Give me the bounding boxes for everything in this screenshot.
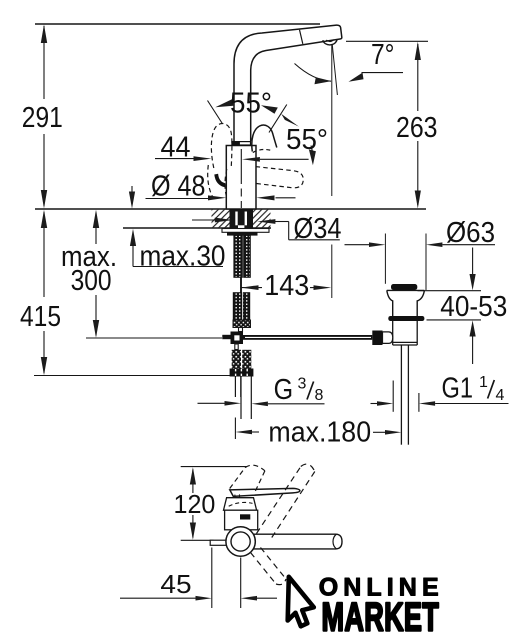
logo cursor — [288, 577, 314, 627]
sideview left stub — [210, 540, 226, 545]
aerator bump — [323, 39, 337, 45]
svg-text:55°: 55° — [230, 87, 272, 119]
callout max30 — [129, 186, 223, 267]
svg-text:max.30: max.30 — [140, 241, 226, 273]
svg-text:8: 8 — [315, 387, 324, 404]
hose fitting right — [242, 350, 251, 369]
svg-text:Ø 48: Ø 48 — [151, 171, 206, 203]
countertop hatch left — [212, 210, 230, 228]
svg-text:G: G — [274, 374, 294, 406]
pop-up rod cross fitting — [231, 332, 244, 345]
sideview spout bar — [250, 534, 342, 549]
countertop top line — [35, 208, 426, 210]
pop-up rod upper — [239, 328, 243, 332]
sideview body notch — [240, 514, 250, 519]
horizontal rod left stub — [222, 335, 230, 339]
sideview swivel inner circle — [231, 532, 250, 551]
svg-text:Ø63: Ø63 — [446, 217, 495, 249]
braided hose upper right — [244, 236, 251, 278]
body centerline dashed — [240, 149, 242, 208]
sideview handle blade — [230, 488, 300, 496]
drain o-ring seal — [388, 316, 424, 321]
sideview body — [225, 510, 258, 530]
extension line at pop-up rod level — [86, 337, 222, 339]
sideview cap — [224, 498, 257, 511]
spout tip divider line — [300, 30, 303, 44]
dim max300 — [93, 210, 99, 338]
dim G1 1/4 — [371, 381, 509, 412]
dim diameter 63 — [345, 242, 496, 247]
drain plug black cap — [391, 284, 417, 290]
svg-text:300: 300 — [71, 265, 112, 297]
hose end checker block — [233, 320, 251, 328]
dim 291 — [41, 25, 47, 209]
svg-text:40-53: 40-53 — [440, 291, 507, 323]
countertop hatch right — [253, 210, 271, 228]
vertical reference line from spout outlet — [331, 45, 333, 196]
sideview ext line bottom — [181, 539, 214, 541]
dim 143 — [241, 285, 331, 290]
dim 120 — [190, 467, 196, 540]
7 degree callout — [295, 64, 404, 85]
drain rod port housing — [383, 332, 393, 344]
svg-text:120: 120 — [174, 491, 216, 519]
logo MARKET text — [322, 595, 440, 640]
threaded shank in countertop — [230, 209, 254, 229]
handle dashed position down-right — [255, 167, 304, 188]
svg-text:143: 143 — [264, 270, 309, 302]
svg-text:MARKET: MARKET — [322, 595, 440, 640]
drain tailpipe — [400, 345, 402, 445]
dim 415 — [41, 210, 47, 376]
7 degree tilted reference line — [332, 45, 337, 95]
faucet body — [226, 146, 256, 210]
drain flange — [387, 289, 425, 291]
drain body — [393, 321, 418, 345]
faucet spout outline — [234, 25, 342, 141]
svg-text:263: 263 — [396, 112, 438, 144]
sideview dashed spout lowered — [251, 548, 287, 585]
sideview spout bar end cap — [333, 534, 336, 548]
dim G3/8 — [198, 401, 325, 406]
dim 44 — [155, 156, 309, 162]
braided hose lower left — [233, 293, 241, 320]
braided hose upper left — [234, 236, 243, 278]
pop-up rod between hoses — [240, 277, 242, 292]
sideview swivel outer circle — [226, 527, 255, 556]
svg-text:7°: 7° — [371, 39, 395, 71]
svg-text:44: 44 — [161, 131, 191, 163]
top reference line — [35, 23, 320, 25]
drain extension lines for dia63 — [384, 234, 386, 284]
braided hose lower right — [243, 293, 250, 320]
supply hose pipe right — [240, 377, 242, 420]
svg-text:Ø34: Ø34 — [294, 213, 342, 245]
dim diameter 48 — [146, 195, 296, 200]
55 deg right callout — [261, 105, 316, 166]
svg-text:4: 4 — [496, 387, 505, 404]
svg-text:3: 3 — [298, 376, 307, 393]
sideview dashed handle up — [230, 465, 265, 492]
body top dark band — [231, 141, 251, 146]
handle hidden edge dashed — [253, 149, 273, 152]
supply hose pipe left — [234, 377, 236, 398]
dim max180 — [235, 418, 401, 440]
rod below fitting — [235, 344, 238, 350]
svg-text:max.180: max.180 — [268, 417, 371, 449]
svg-text:G1: G1 — [442, 373, 474, 405]
shank nut under washer — [227, 232, 258, 235]
svg-text:55°: 55° — [286, 124, 328, 156]
handle dashed position up-left — [211, 123, 232, 168]
dim diameter 34 callout — [192, 218, 340, 240]
hose fitting left — [232, 350, 241, 369]
dim 45 — [120, 548, 277, 609]
svg-text:45: 45 — [160, 571, 191, 599]
svg-text:1: 1 — [479, 374, 488, 391]
extension line at hose end level — [34, 375, 230, 377]
mounting washer plate — [222, 229, 269, 233]
sideview ext line top — [181, 466, 247, 468]
55 deg left callout — [208, 99, 234, 123]
drain rod port knob — [372, 331, 382, 346]
handle dashed position down-left — [208, 165, 214, 199]
handle solid lever (up-right) — [252, 125, 277, 151]
dim 40-53 — [418, 248, 482, 365]
countertop bottom line — [123, 227, 271, 229]
sideview dashed spout raised — [257, 464, 315, 541]
hose nuts band — [230, 369, 254, 377]
horizontal rod to drain — [243, 335, 372, 340]
svg-text:291: 291 — [22, 102, 63, 134]
dim 263 — [346, 41, 428, 208]
small black lever mark left of body — [214, 174, 225, 188]
svg-text:415: 415 — [20, 301, 61, 333]
